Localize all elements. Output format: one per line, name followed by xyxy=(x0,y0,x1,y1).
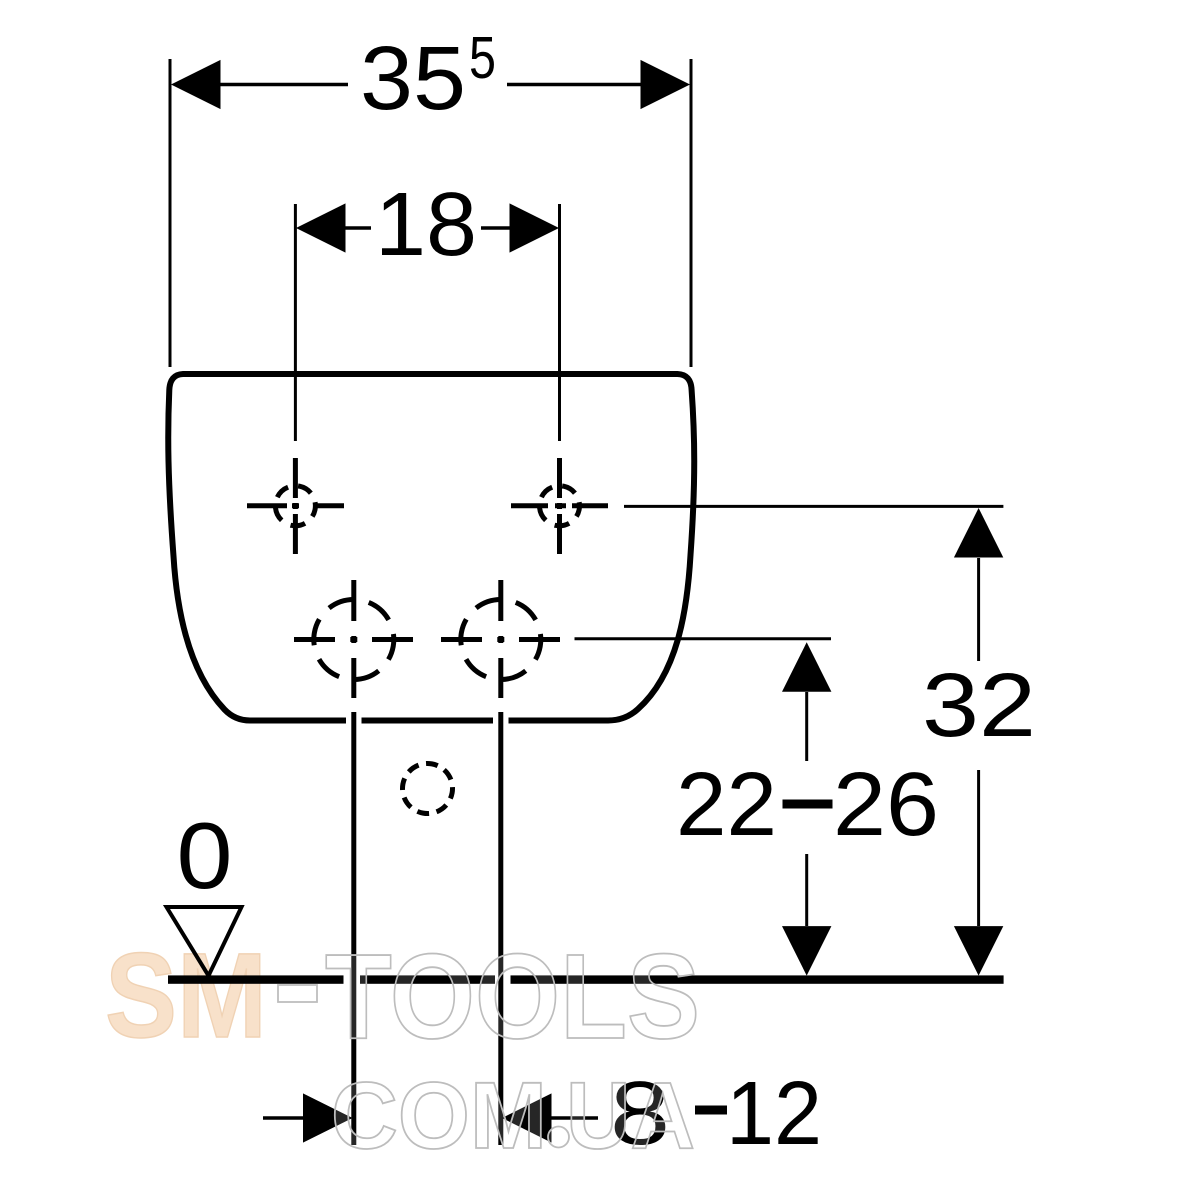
extension vertical line right hole to floor xyxy=(498,712,503,1145)
svg-text:12: 12 xyxy=(726,1064,822,1164)
connection hole bottom-left dashed circle xyxy=(307,593,400,686)
outlet dashed circle xyxy=(399,760,457,818)
reference line from top holes to dim 32 xyxy=(624,505,1003,508)
dim 8-12 left leader line xyxy=(263,1116,303,1119)
svg-text:18: 18 xyxy=(375,175,477,275)
extension line left of dim 35.5 xyxy=(169,59,172,367)
dim 8-12 dash xyxy=(695,1106,727,1115)
dim line 18 right stub xyxy=(481,226,510,229)
dim line 35.5 right segment xyxy=(507,83,642,86)
floor line segment 1 xyxy=(168,975,344,983)
dim 22-26 vertical line lower segment xyxy=(805,854,808,926)
extension line left of dim 18 xyxy=(294,204,297,441)
svg-text:0: 0 xyxy=(177,803,233,908)
dim 8-12 right leader line xyxy=(552,1116,599,1119)
fixing hole top-right dashed circle xyxy=(536,482,583,529)
extension line right of dim 18 xyxy=(558,204,561,441)
arrow right of dim 18 xyxy=(510,203,560,252)
arrow up of dim 32 xyxy=(954,508,1003,558)
svg-text:22: 22 xyxy=(676,755,777,855)
connection hole bottom-left crosshair horizontal xyxy=(294,637,413,642)
extension vertical line left hole to floor xyxy=(351,712,356,1145)
connection hole bottom-left crosshair vertical xyxy=(351,580,356,698)
svg-text:COM: COM xyxy=(331,1063,547,1169)
dim 32 vertical line upper segment xyxy=(977,558,980,661)
dim line 18 left stub xyxy=(344,226,371,229)
dim line 35.5 left segment xyxy=(219,83,348,86)
reference line from bottom holes to dim 22-26 xyxy=(575,637,832,640)
svg-text:TOOLS: TOOLS xyxy=(325,928,700,1064)
arrow left of dim 35.5 xyxy=(171,60,221,109)
connection hole bottom-right crosshair vertical xyxy=(498,580,503,698)
dim 22-26 dash xyxy=(783,800,833,809)
fixing hole top-left dashed circle xyxy=(272,482,319,529)
fixing hole top-left crosshair vertical xyxy=(293,458,298,554)
fixing hole top-right crosshair horizontal xyxy=(511,503,608,508)
ceramic body outline xyxy=(168,374,694,721)
floor line segment 3 xyxy=(511,975,1004,983)
watermark dot of COM.UA xyxy=(548,1127,569,1148)
arrow down of dim 32 xyxy=(954,926,1003,976)
connection hole bottom-right crosshair horizontal xyxy=(441,637,560,642)
watermark hyphen xyxy=(278,985,317,1002)
arrow down of dim 22-26 xyxy=(782,926,831,976)
arrow left of dim 18 xyxy=(296,203,346,252)
svg-text:32: 32 xyxy=(922,656,1036,756)
datum triangle xyxy=(167,907,242,976)
floor line segment 2 xyxy=(360,975,495,983)
connection hole bottom-right dashed circle xyxy=(454,593,547,686)
fixing hole top-right crosshair vertical xyxy=(557,458,562,554)
fixing hole top-left crosshair horizontal xyxy=(247,503,344,508)
svg-text:26: 26 xyxy=(833,755,939,855)
svg-text:35: 35 xyxy=(360,29,466,129)
arrow up of dim 22-26 xyxy=(782,642,831,692)
watermark SM letters xyxy=(105,927,267,1063)
svg-text:SM: SM xyxy=(105,927,267,1063)
extension line right of dim 35.5 xyxy=(690,59,693,367)
svg-text:UA: UA xyxy=(566,1063,695,1169)
arrow right-pointing of dim 8-12 xyxy=(303,1093,353,1142)
svg-text:5: 5 xyxy=(469,25,496,91)
dim 32 vertical line lower segment xyxy=(977,770,980,926)
gap in body bottom edge at right vertical xyxy=(493,713,509,728)
dim 22-26 vertical line upper segment xyxy=(805,692,808,761)
arrow left-pointing of dim 8-12 xyxy=(502,1093,552,1142)
gap in body bottom edge at left vertical xyxy=(346,713,362,728)
arrow right of dim 35.5 xyxy=(641,60,691,109)
